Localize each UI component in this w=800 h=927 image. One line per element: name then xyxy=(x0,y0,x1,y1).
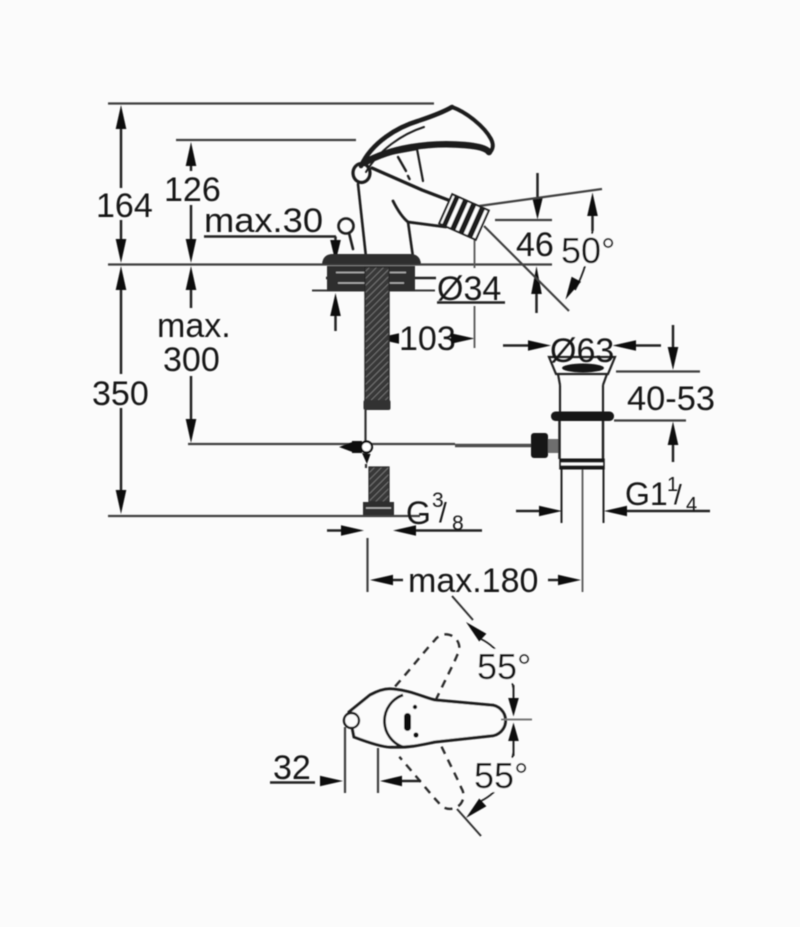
svg-text:/: / xyxy=(674,479,682,510)
ref line lever end (126) xyxy=(176,139,356,141)
G3/8 threaded nipple xyxy=(369,467,389,502)
waste centerline xyxy=(582,470,584,593)
svg-text:4: 4 xyxy=(686,494,697,516)
svg-text:46: 46 xyxy=(516,226,554,264)
waste bottom rim xyxy=(560,459,604,463)
handle hook end xyxy=(353,164,370,183)
dimension max.180 xyxy=(368,538,582,600)
dimension 103 xyxy=(376,221,475,358)
svg-text:164: 164 xyxy=(96,187,153,225)
dashed rotated handle down xyxy=(399,733,475,818)
dimension 164 xyxy=(96,105,153,263)
arc 55 deg down xyxy=(508,723,519,742)
svg-text:55°: 55° xyxy=(474,755,528,796)
supply end ref line (350) xyxy=(108,515,420,517)
svg-text:350: 350 xyxy=(92,375,149,413)
label 55 deg up xyxy=(473,649,535,683)
svg-text:G1: G1 xyxy=(625,476,668,512)
waste upper body xyxy=(560,385,603,412)
spout angle rays xyxy=(479,189,602,206)
svg-text:G: G xyxy=(406,495,431,531)
handle loop upper blade xyxy=(361,107,452,166)
svg-text:max.30: max.30 xyxy=(204,202,323,240)
deck bottom line xyxy=(312,290,435,292)
ref line max.300 bottom / pop-up rod level xyxy=(188,443,455,445)
body left edge xyxy=(358,184,366,257)
waste neck xyxy=(558,374,607,385)
body right edge xyxy=(408,222,413,257)
handle loop lower blade xyxy=(364,144,489,163)
svg-text:max.: max. xyxy=(157,307,231,345)
pop-up rod pivot assembly xyxy=(339,442,353,453)
dimension max.300 xyxy=(157,266,231,443)
waste tailpipe walls xyxy=(561,470,563,524)
handle centerline xyxy=(501,719,532,721)
waste lower body xyxy=(558,421,561,459)
pop-up rod xyxy=(364,410,366,441)
svg-text:50°: 50° xyxy=(561,230,615,271)
waste collar xyxy=(551,412,614,422)
dimension 126 xyxy=(164,142,221,263)
dimension Ø34 xyxy=(326,270,505,308)
threaded shank xyxy=(365,267,389,403)
cap/body diagonal to spout top xyxy=(372,168,456,203)
dimension 46 xyxy=(495,173,554,313)
ref line top of handle (164) xyxy=(108,102,434,104)
dashed rotated handle up xyxy=(395,625,471,710)
pop-up rod link xyxy=(455,444,531,448)
dimension G3/8 xyxy=(327,489,482,536)
handle top view reflection dash xyxy=(404,713,411,731)
svg-text:300: 300 xyxy=(163,341,220,379)
svg-text:103: 103 xyxy=(399,320,456,358)
svg-text:40-53: 40-53 xyxy=(627,380,715,418)
spout underside xyxy=(393,201,446,227)
outlet reference tick xyxy=(474,221,476,268)
dimension 32 xyxy=(270,727,421,793)
solid handle top view xyxy=(344,689,505,747)
dimension Ø63 xyxy=(503,332,661,370)
handle loop right end xyxy=(452,107,493,153)
cartridge cap top xyxy=(367,149,417,158)
svg-text:max.180: max.180 xyxy=(408,562,538,600)
mounting surface line xyxy=(108,263,552,265)
aerator xyxy=(439,194,489,240)
mounting nuts below deck xyxy=(327,266,415,291)
pop-up pull knob xyxy=(339,219,354,234)
label 55 deg down xyxy=(470,758,532,792)
dimension 50 deg xyxy=(558,193,620,300)
svg-text:Ø63: Ø63 xyxy=(550,332,614,370)
svg-text:8: 8 xyxy=(452,512,464,535)
dimension 350 xyxy=(92,266,149,514)
svg-text:55°: 55° xyxy=(477,646,531,687)
rod adjuster block xyxy=(531,433,548,458)
arc 55 deg up xyxy=(466,622,486,642)
svg-text:/: / xyxy=(439,497,447,528)
rotation axis line down xyxy=(457,809,481,836)
rotation axis line up xyxy=(452,596,473,620)
supply tube to G3/8 xyxy=(365,464,367,468)
dimension max.30 xyxy=(204,202,341,331)
dimension 40-53 xyxy=(614,325,715,462)
cap reflection dash xyxy=(398,157,406,171)
waste flange xyxy=(549,357,615,412)
escutcheon base xyxy=(322,254,421,264)
dimension G1 1/4 xyxy=(516,474,710,516)
